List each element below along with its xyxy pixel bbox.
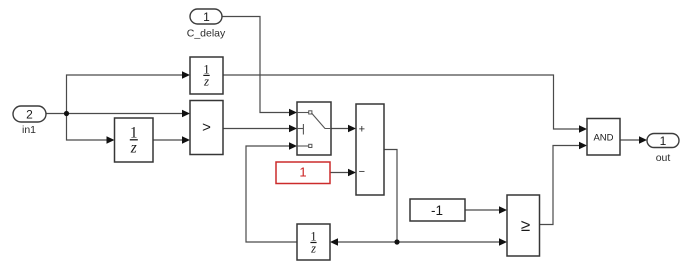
wire junction to UnitDelay3 input (leftward) <box>338 241 397 243</box>
wire RelationalOperator output to Switch input 2 <box>223 128 289 130</box>
svg-text:>: > <box>202 119 211 136</box>
svg-text:z: z <box>203 74 209 89</box>
wire UnitDelay3 output to Switch input 3 <box>246 146 297 242</box>
wire junction right to RelationalOperator input 1 <box>67 113 183 115</box>
wire UnitDelay1 output to AND input 1 <box>223 75 579 129</box>
arrowhead into GreaterEqual input 1 <box>499 206 507 214</box>
wire C_delay to Switch input 1 <box>222 17 289 113</box>
arrowhead into outport <box>639 136 647 144</box>
relational operator >= block <box>507 195 540 256</box>
inport 2 in1 oval <box>13 106 46 122</box>
arrowhead into UnitDelay1 <box>182 71 190 79</box>
relational operator > block <box>190 101 223 155</box>
unit delay U2 (left) block <box>115 118 154 162</box>
wire Switch output to Sum plus input <box>331 128 348 130</box>
svg-text:C_delay: C_delay <box>187 28 226 40</box>
svg-text:1: 1 <box>660 134 667 148</box>
arrowhead into AND input 1 <box>579 125 587 133</box>
svg-text:out: out <box>656 152 671 164</box>
unit delay U3 (feedback, flipped) block <box>297 224 330 260</box>
svg-text:-1: -1 <box>431 203 443 218</box>
svg-text:−: − <box>359 166 365 178</box>
sum (subtract) block <box>356 104 384 195</box>
wire AND output to outport <box>620 139 640 141</box>
svg-text:in1: in1 <box>22 124 36 136</box>
junction dot at feedback branch <box>394 239 399 244</box>
wire junction down to UnitDelay2 input <box>67 114 107 141</box>
arrowhead into GreaterEqual input 2 <box>499 238 507 246</box>
unit delay U2 fraction bar <box>130 139 138 141</box>
wire GreaterEqual output to AND input 2 <box>540 146 580 225</box>
arrowhead into Switch input 2 <box>289 125 297 133</box>
wire Constant1 output to Sum minus input <box>330 172 348 174</box>
arrowhead into AND input 2 <box>579 142 587 150</box>
wire Constant-1 output to GreaterEqual input 1 <box>465 209 499 211</box>
wire junction to GreaterEqual input 2 <box>397 241 499 243</box>
arrowhead into UnitDelay2 <box>107 136 115 144</box>
wire Sum output down to junction <box>384 150 397 243</box>
switch block <box>297 102 331 155</box>
switch bottom port square <box>309 144 312 147</box>
inport 1 C_delay oval <box>190 9 222 24</box>
wire UnitDelay2 output to RelationalOperator input 2 <box>153 139 182 141</box>
svg-text:z: z <box>130 139 137 156</box>
unit delay U3 fraction bar <box>310 242 316 244</box>
arrowhead into UnitDelay3 (pointing left) <box>330 238 338 246</box>
arrowhead into RelationalOperator input 2 <box>182 136 190 144</box>
constant -1 block <box>410 199 465 221</box>
unit delay U1 (top) block <box>190 57 223 94</box>
wire junction up to UnitDelay1 input <box>67 75 183 114</box>
junction dot at in1 branch <box>64 111 69 116</box>
outport 1 oval <box>647 134 679 148</box>
svg-text:AND: AND <box>593 132 613 143</box>
logical operator AND block <box>587 119 620 156</box>
svg-text:+: + <box>359 124 365 136</box>
wire in1 to junction <box>46 113 67 115</box>
switch threshold stub <box>298 128 303 130</box>
switch top port stub <box>298 112 309 114</box>
switch arm diagonal <box>312 113 331 129</box>
arrowhead into Switch input 1 <box>289 109 297 117</box>
svg-text:2: 2 <box>26 107 33 121</box>
arrowhead into Sum plus input <box>348 125 356 133</box>
constant 1 (red) block <box>276 162 330 184</box>
switch threshold bar <box>302 124 304 135</box>
arrowhead into Switch input 3 <box>289 142 297 150</box>
switch bottom port stub <box>298 145 309 147</box>
arrowhead into RelationalOperator input 1 <box>182 110 190 118</box>
unit delay U1 fraction bar <box>203 74 209 76</box>
svg-text:≥: ≥ <box>521 216 530 235</box>
svg-text:z: z <box>310 241 316 255</box>
arrowhead into Sum minus input <box>348 169 356 177</box>
svg-text:1: 1 <box>203 10 210 24</box>
svg-text:1: 1 <box>299 165 306 180</box>
switch top port square <box>309 111 312 114</box>
